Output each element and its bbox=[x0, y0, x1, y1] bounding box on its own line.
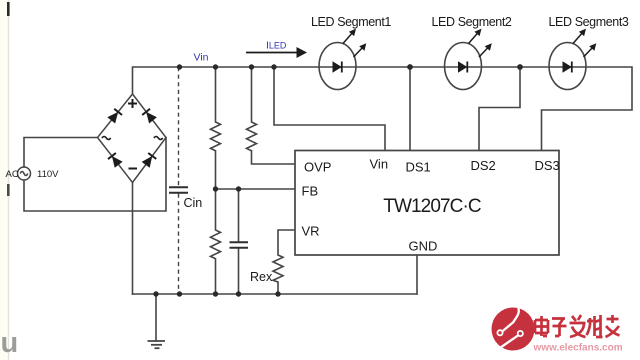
node top rail / R2 bbox=[249, 64, 254, 69]
svg-text:Vin: Vin bbox=[194, 52, 209, 64]
bridge polarity marks bbox=[128, 99, 137, 169]
node top rail / DS1 bbox=[407, 64, 413, 70]
svg-text:LED Segment3: LED Segment3 bbox=[549, 15, 629, 29]
wire AC source bottom lead to bridge right vertex bbox=[24, 138, 166, 212]
elecfans watermark chinese text bbox=[535, 315, 620, 337]
op-amp U1 TW1207C-C box bbox=[295, 151, 559, 256]
node top rail / DS2 bbox=[517, 64, 523, 70]
resistor R1 (upper divider) bbox=[211, 67, 221, 189]
LED D5 (segment 1) bbox=[319, 29, 366, 90]
capacitor Cin dashed column bbox=[178, 67, 180, 294]
svg-text:ILED: ILED bbox=[266, 40, 287, 52]
node FB / C2 bbox=[236, 186, 241, 191]
node top rail / R1 bbox=[213, 64, 218, 69]
resistor R3 (lower divider) bbox=[211, 189, 221, 294]
wire ground stub bbox=[155, 294, 157, 341]
node ILED current arrow bbox=[246, 40, 307, 59]
AC source V1 bbox=[18, 167, 31, 180]
svg-text:DS1: DS1 bbox=[406, 160, 431, 175]
elecfans watermark logo circle bbox=[492, 307, 535, 351]
wire Rex bottom bbox=[277, 282, 279, 294]
svg-text:LED Segment1: LED Segment1 bbox=[311, 15, 391, 29]
capacitor C2 (FB filter) bbox=[238, 189, 240, 294]
diode bridge D2 (top-right edge) bbox=[142, 109, 157, 124]
svg-text:GND: GND bbox=[409, 239, 438, 254]
node rail / ground stub bbox=[153, 291, 158, 296]
resistor R2 (OVP sense) bbox=[247, 67, 257, 151]
svg-text:TW1207C·C: TW1207C·C bbox=[383, 196, 481, 217]
svg-text:DS2: DS2 bbox=[471, 158, 496, 173]
svg-text:AC: AC bbox=[6, 169, 19, 180]
svg-text:Cin: Cin bbox=[184, 196, 203, 210]
svg-text:OVP: OVP bbox=[304, 160, 331, 175]
wire ground rail bbox=[133, 293, 418, 295]
wire Vin pin jog bbox=[274, 67, 385, 151]
node FB / R1 bbox=[213, 186, 218, 191]
wire OVP net bbox=[252, 151, 296, 164]
wire bridge negative output down bbox=[132, 183, 134, 295]
node rail / Cin bbox=[177, 291, 182, 296]
node top rail / Cin bbox=[177, 64, 182, 69]
wire DS1 drop bbox=[409, 67, 411, 151]
node rail / C2 bbox=[236, 291, 241, 296]
bridge rectifier diamond bbox=[98, 94, 167, 183]
node rail / R3 bbox=[213, 291, 218, 296]
svg-text:DS3: DS3 bbox=[535, 158, 560, 173]
wire FB net row bbox=[216, 188, 296, 190]
wire VR pin to Rex bbox=[278, 230, 295, 255]
diode bridge D1 (top-left edge) bbox=[107, 109, 122, 124]
svg-text:Rex: Rex bbox=[250, 270, 273, 284]
wire DS2 jog bbox=[479, 67, 520, 151]
ground symbol bbox=[148, 341, 166, 348]
svg-text:VR: VR bbox=[302, 224, 320, 239]
svg-text:u: u bbox=[1, 327, 19, 359]
LED D6 (segment 2) bbox=[445, 29, 492, 90]
diode bridge D3 (bottom-left edge) bbox=[108, 153, 123, 168]
capacitor Cin plates bbox=[169, 187, 188, 192]
resistor Rex bbox=[273, 255, 283, 282]
LED D7 (segment 3) bbox=[549, 29, 596, 90]
node rail / Rex bbox=[275, 291, 280, 296]
svg-text:www.elecfans.com: www.elecfans.com bbox=[533, 343, 623, 354]
wire top rail from bridge to DS3 corner bbox=[133, 67, 633, 151]
diode bridge D4 (bottom-right edge) bbox=[142, 153, 157, 168]
node top rail / Vin jog bbox=[271, 64, 276, 69]
wire GND pin drop from IC bbox=[416, 254, 418, 294]
svg-text:LED Segment2: LED Segment2 bbox=[432, 15, 512, 29]
svg-text:FB: FB bbox=[302, 184, 319, 199]
wire AC source top lead to bridge left vertex bbox=[24, 138, 98, 168]
svg-text:Vin: Vin bbox=[370, 157, 389, 172]
svg-text:110V: 110V bbox=[37, 169, 59, 180]
